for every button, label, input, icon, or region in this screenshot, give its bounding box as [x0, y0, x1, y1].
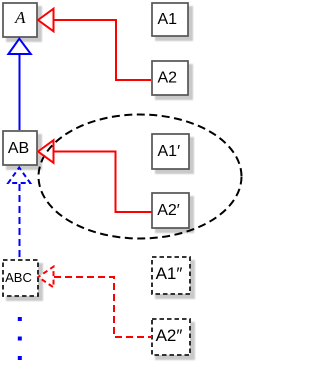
svg-text:A: A: [14, 8, 26, 27]
red inheritance connector from A2' to AB (elbow): [54, 152, 153, 213]
shadow of class box A1': [155, 137, 194, 174]
dashed class box ABC: [3, 260, 38, 296]
shadow of class box AB: [6, 134, 42, 170]
svg-text:A2: A2: [158, 70, 178, 87]
shadow of class box A1'': [155, 260, 195, 299]
class box A: [3, 3, 37, 37]
red dashed connector from A2'' to ABC (elbow): [54, 277, 152, 337]
class box A1: [152, 3, 188, 36]
svg-text:A1: A1: [158, 11, 178, 28]
blue dashed open triangle arrowhead at AB bottom: [8, 168, 30, 184]
shadow of class box A2'': [155, 322, 195, 360]
svg-text:A2″: A2″: [156, 326, 183, 345]
shadow of class box A: [6, 6, 42, 42]
dashed ellipse grouping A1' and A2': [39, 115, 242, 239]
shadow of class box A2': [155, 196, 194, 233]
red open triangle arrowhead at AB (white fill): [38, 140, 54, 163]
shadow of class box A2: [155, 64, 193, 100]
blue dashed generalization arrow from ABC to AB: [19, 184, 21, 259]
svg-text:A1′: A1′: [158, 143, 181, 160]
class box A2': [152, 193, 189, 228]
class box AB: [3, 131, 37, 165]
svg-text:A1″: A1″: [156, 264, 183, 283]
red open triangle arrowhead at A: [38, 9, 54, 32]
svg-text:A2′: A2′: [157, 202, 180, 219]
blue open triangle arrowhead at A bottom: [8, 39, 30, 54]
class box A1': [152, 134, 189, 169]
dashed class box A1'': [152, 257, 190, 294]
red open triangle arrowhead at AB (red stroke): [38, 140, 54, 163]
class box A2: [152, 61, 188, 95]
svg-text:AB: AB: [8, 140, 29, 157]
dashed class box A2'': [152, 319, 190, 355]
blue ellipsis dot 2 below ABC: [18, 337, 22, 341]
svg-text:ABC: ABC: [5, 270, 32, 285]
blue generalization arrow from AB to A: [19, 54, 21, 130]
red inheritance connector from A2 to A (elbow): [54, 20, 152, 80]
red dashed open triangle arrowhead at ABC: [38, 267, 53, 288]
blue ellipsis dot 3 below ABC: [18, 356, 22, 360]
blue ellipsis dot 1 below ABC: [18, 317, 22, 321]
shadow of class box ABC: [6, 263, 43, 301]
shadow of class box A1: [155, 6, 193, 41]
